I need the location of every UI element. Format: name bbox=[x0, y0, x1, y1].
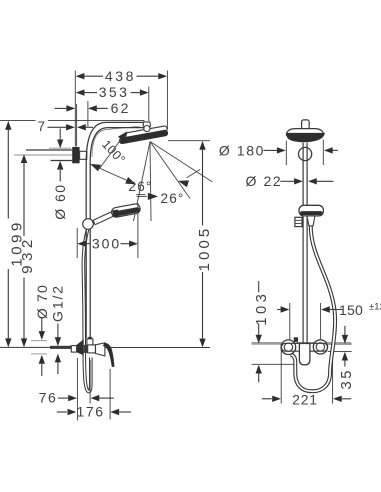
arrow 35 down bbox=[342, 335, 348, 344]
grey extension lines for valve escutcheon dia 70 bbox=[31, 340, 47, 342]
arrow 1099 bottom bbox=[5, 338, 11, 347]
arrow 26b-right bbox=[178, 180, 189, 187]
valve connection stub (side) bbox=[71, 346, 76, 353]
svg-text:7: 7 bbox=[37, 119, 46, 134]
arrow 26b-left bbox=[148, 193, 158, 200]
extension line at datum x=75.3 bbox=[74, 71, 76, 147]
ball joint below overhead head bbox=[299, 147, 312, 160]
svg-text:35: 35 bbox=[339, 368, 355, 390]
extension line x=87.9 (pipe edge for 62) bbox=[87, 101, 89, 127]
arrow d70 up bbox=[39, 355, 45, 364]
dimension 62 bbox=[55, 107, 67, 109]
arrow 150 left bbox=[281, 306, 290, 312]
grey bracket centre line y=155 (932 reference) bbox=[14, 154, 72, 156]
arrow d180 left bbox=[277, 147, 286, 153]
overhead shower head (front view): white dome + black dish bbox=[286, 129, 323, 135]
dimension 176 bbox=[57, 411, 67, 413]
extension lines right view bbox=[285, 141, 287, 166]
svg-text:Ø 60: Ø 60 bbox=[52, 183, 68, 219]
diverter knob bbox=[294, 337, 298, 341]
shower hose (front view) big loop from hand shower to valve bbox=[291, 226, 335, 391]
arrow d180 right bbox=[324, 147, 333, 153]
valve handle (front) bbox=[299, 344, 310, 365]
hand shower in holder (front view) bbox=[299, 205, 323, 216]
spray lines from overhead head bbox=[134, 142, 151, 222]
arrow 1005 top bbox=[199, 141, 205, 150]
right view wall line (grey) bbox=[252, 341, 352, 343]
bottom extension lines (76 / 176) bbox=[76, 358, 78, 421]
hand shower handle (side view) bbox=[93, 211, 114, 225]
arrow 7 right bbox=[77, 124, 86, 130]
arm inner shading line bbox=[92, 126, 140, 157]
arm end / head swivel mount bbox=[143, 122, 150, 129]
arrow 76 left bbox=[68, 395, 77, 401]
wall bracket tube (side view, cutaway lines) bbox=[26, 149, 72, 151]
bracket escutcheon (black) bbox=[72, 147, 79, 163]
arrow d60 down bbox=[57, 140, 63, 149]
arrow 438 right bbox=[158, 73, 167, 79]
arrow 26a-left bbox=[90, 164, 101, 171]
dimension 103 (vertical) bbox=[258, 281, 260, 292]
arrow 100deg bbox=[118, 131, 127, 141]
dimension 221 bbox=[262, 398, 272, 400]
extension line x=167.4 (438 right / head front) bbox=[166, 71, 168, 130]
arrow 1099 top bbox=[5, 121, 11, 130]
svg-text:26°: 26° bbox=[128, 179, 152, 194]
svg-text:176: 176 bbox=[77, 404, 105, 420]
arrow 221 right bbox=[333, 396, 342, 402]
pipe connector knob on top of valve bbox=[87, 339, 93, 345]
label dia 60 with arrows at bracket bbox=[59, 129, 61, 140]
arrow 103 up bbox=[256, 365, 262, 374]
left view wall line continuing right of valve to 1005 dimension bbox=[104, 347, 210, 349]
valve (front view): body bar, escutcheons, handle bbox=[281, 343, 327, 351]
shower hose (side view) hanging from hand shower down past valve, J-loop bbox=[83, 230, 90, 392]
left view: extension line top (1099 reference, y=120.6) bbox=[0, 120, 36, 122]
arrow 176 left bbox=[68, 409, 77, 415]
hand shower head (side view) with dark face bbox=[111, 203, 141, 218]
arrow g12 down bbox=[55, 337, 61, 346]
svg-text:Ø 70: Ø 70 bbox=[34, 284, 50, 319]
top stub above overhead head bbox=[302, 120, 310, 129]
svg-text:438: 438 bbox=[105, 68, 136, 84]
arrow 300 right bbox=[129, 241, 138, 247]
100deg swivel leader with arrow to arm bbox=[100, 133, 126, 168]
arrow 76 right bbox=[91, 395, 100, 401]
arrow d22 left bbox=[294, 178, 303, 184]
grey extension line for bracket dia 60 bbox=[49, 147, 71, 149]
arrow 7 left bbox=[66, 124, 75, 130]
arrow d60 up bbox=[57, 161, 63, 170]
arrow d70 down bbox=[39, 331, 45, 340]
left view supply line to wall (y=347.4) bbox=[0, 346, 50, 348]
extension line y=140.7 (1005 top, from head) bbox=[168, 140, 210, 142]
arrow g12 up bbox=[55, 354, 61, 363]
arrow 1005 bottom bbox=[199, 339, 205, 348]
swivel ball between arm and head bbox=[144, 126, 150, 132]
holder clamp bbox=[295, 217, 302, 226]
26deg #2 arrow pointing right at vertical spray line bbox=[137, 195, 148, 197]
arrow 26a-right bbox=[125, 177, 136, 184]
extension line x=148.8 (353 right) bbox=[148, 87, 150, 122]
dimension 150 +-12 bbox=[277, 309, 281, 311]
svg-text:Ø 180: Ø 180 bbox=[219, 142, 265, 158]
shower pipe (front view) bbox=[302, 143, 304, 344]
arrow 353 left bbox=[76, 89, 85, 95]
overhead shower head (side view, tilted) bbox=[118, 126, 169, 145]
arrow 176 right bbox=[110, 409, 119, 415]
svg-text:Ø 22: Ø 22 bbox=[246, 173, 283, 189]
extension line x=76.6 (7 mm offset / bracket face) bbox=[76, 104, 78, 147]
dimension 35 (vertical) bbox=[344, 326, 346, 335]
arrow d22 right bbox=[308, 178, 317, 184]
arrow 300 left bbox=[77, 241, 86, 247]
supply nipple (dark bar) bbox=[50, 346, 71, 349]
arrow 150 right bbox=[321, 306, 330, 312]
svg-text:353: 353 bbox=[99, 84, 130, 100]
bracket stub to pipe bbox=[80, 151, 87, 159]
hand shower slider knob on pipe bbox=[83, 219, 94, 230]
arrow 221 left bbox=[272, 396, 281, 402]
svg-text:221: 221 bbox=[292, 392, 318, 408]
arrow 62 left bbox=[66, 105, 75, 111]
valve lever handle (side, black) bbox=[103, 343, 115, 367]
svg-text:103: 103 bbox=[254, 291, 270, 326]
26deg dimension leader (left) double arrow bbox=[91, 164, 136, 184]
arrow 438 left bbox=[76, 73, 85, 79]
svg-text:76: 76 bbox=[39, 390, 58, 406]
supply stub inner circles bbox=[284, 343, 292, 351]
svg-text:150: 150 bbox=[339, 302, 363, 318]
arrow 103 down bbox=[256, 335, 262, 344]
svg-text:26°: 26° bbox=[160, 191, 184, 206]
arrow 35 up bbox=[342, 352, 348, 361]
svg-text:G1/2: G1/2 bbox=[50, 284, 66, 322]
arrow 353 right bbox=[140, 89, 149, 95]
svg-text:300: 300 bbox=[92, 235, 121, 251]
valve body (side view) bbox=[84, 345, 88, 353]
300 extension lines bbox=[76, 228, 78, 258]
svg-text:62: 62 bbox=[111, 100, 131, 116]
svg-text:1005: 1005 bbox=[196, 226, 213, 272]
arrow 62 right bbox=[88, 105, 97, 111]
svg-text:±12: ±12 bbox=[369, 301, 381, 312]
arrow 932 bottom bbox=[21, 338, 27, 347]
valve escutcheon trapezoid (black) bbox=[77, 339, 84, 355]
shower pipe (side view) with top elbow and horizontal arm bbox=[86, 122, 143, 338]
arrow 932 top bbox=[21, 154, 27, 163]
svg-text:932: 932 bbox=[19, 235, 36, 274]
